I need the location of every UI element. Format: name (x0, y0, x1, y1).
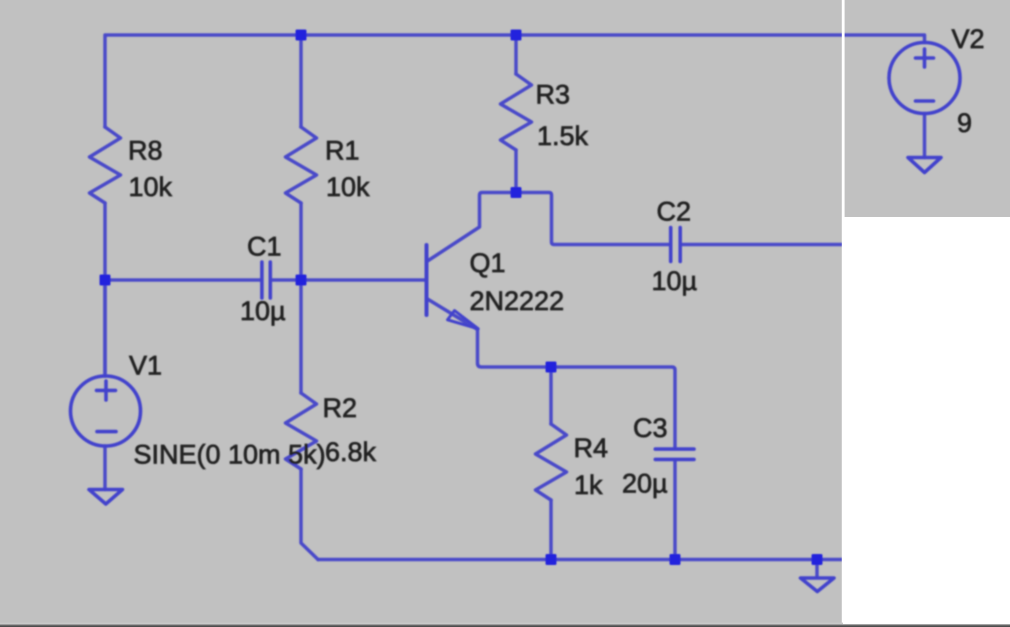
node dot collector (511, 187, 522, 198)
svg-text:1k: 1k (574, 470, 603, 500)
svg-text:1.5k: 1.5k (537, 121, 589, 151)
window bottom edge mid line (0, 624, 1010, 625)
wire bottom rail (318, 558, 842, 562)
node dot emitter (546, 362, 557, 373)
svg-text:C1: C1 (247, 232, 282, 262)
svg-text:R8: R8 (128, 136, 163, 166)
wire R1 bottom to node (299, 203, 303, 280)
capacitor C2 plates (671, 228, 681, 262)
wire R1 top (299, 35, 303, 127)
wire R8 bottom to node (103, 203, 107, 376)
svg-text:V1: V1 (129, 351, 162, 381)
wire ground stub bottom rail (815, 560, 819, 578)
V1 minus sign (97, 430, 116, 434)
node dot left input (100, 275, 111, 286)
window bottom edge highlight (0, 623, 843, 625)
wire C1 to base of Q1 (272, 278, 425, 282)
svg-text:2N2222: 2N2222 (470, 286, 565, 316)
resistor R2 (286, 393, 317, 469)
capacitor C3 plates (655, 449, 694, 459)
transistor Q1 emitter arrow (448, 311, 479, 329)
node dot C3 bottom (670, 554, 681, 565)
wire V1 bottom stub (103, 446, 107, 490)
voltage source V1 circle (71, 376, 141, 446)
svg-text:6.8k: 6.8k (325, 437, 377, 467)
wire emitter to R4/C3 node (428, 299, 676, 448)
svg-text:V2: V2 (952, 24, 985, 54)
window bottom bar (0, 625, 1010, 627)
svg-text:SINE(0 10m 5k): SINE(0 10m 5k) (134, 440, 326, 470)
voltage source V2 circle (889, 43, 960, 114)
wire base from node A to C1 (105, 278, 260, 282)
node dot rail-R1 (296, 30, 307, 41)
resistor R4 (536, 424, 567, 500)
wire C3 bottom (673, 461, 677, 560)
node dot base divider (296, 275, 307, 286)
ground under V2 (908, 158, 941, 173)
wire top rail (105, 35, 925, 127)
node dot ground rail (812, 554, 823, 565)
wire R3 bottom (514, 150, 518, 193)
svg-text:20µ: 20µ (622, 469, 668, 499)
ground at bottom rail (801, 578, 835, 592)
node dot rail-R3 (511, 30, 522, 41)
resistor R8 (90, 127, 121, 203)
wire R4 bottom (549, 500, 553, 560)
V2 minus sign (916, 99, 934, 103)
V1 plus sign (97, 381, 116, 400)
svg-text:R2: R2 (323, 393, 358, 423)
white panel bottom right (843, 217, 1010, 624)
node dot R4 bottom (546, 554, 557, 565)
wire R3 top (514, 35, 518, 74)
wire R2 top (299, 280, 303, 393)
ground under V1 (89, 490, 123, 505)
capacitor C1 plates (262, 262, 270, 298)
svg-text:C2: C2 (657, 197, 692, 227)
svg-text:C3: C3 (633, 413, 668, 443)
svg-text:10k: 10k (129, 172, 173, 202)
svg-text:Q1: Q1 (470, 248, 506, 278)
svg-text:10k: 10k (326, 172, 370, 202)
wire V1 top stub (103, 280, 107, 376)
white separator line (842, 0, 845, 624)
svg-text:9: 9 (957, 108, 972, 138)
wire V2 bottom stub (923, 114, 927, 158)
svg-text:R4: R4 (574, 433, 609, 463)
wire R4 top (549, 367, 553, 424)
svg-text:R3: R3 (536, 80, 571, 110)
wire C2 output to right edge (683, 243, 844, 247)
svg-text:10µ: 10µ (240, 296, 286, 326)
resistor R1 (286, 127, 317, 203)
svg-text:10µ: 10µ (652, 266, 698, 296)
V2 plus sign (916, 49, 934, 67)
wire collector rail with corners (428, 193, 669, 262)
transistor Q1 base bar (425, 245, 429, 315)
resistor R3 (501, 74, 532, 150)
svg-text:R1: R1 (325, 136, 360, 166)
wire R2 bottom with 45 deg bend (301, 469, 318, 560)
